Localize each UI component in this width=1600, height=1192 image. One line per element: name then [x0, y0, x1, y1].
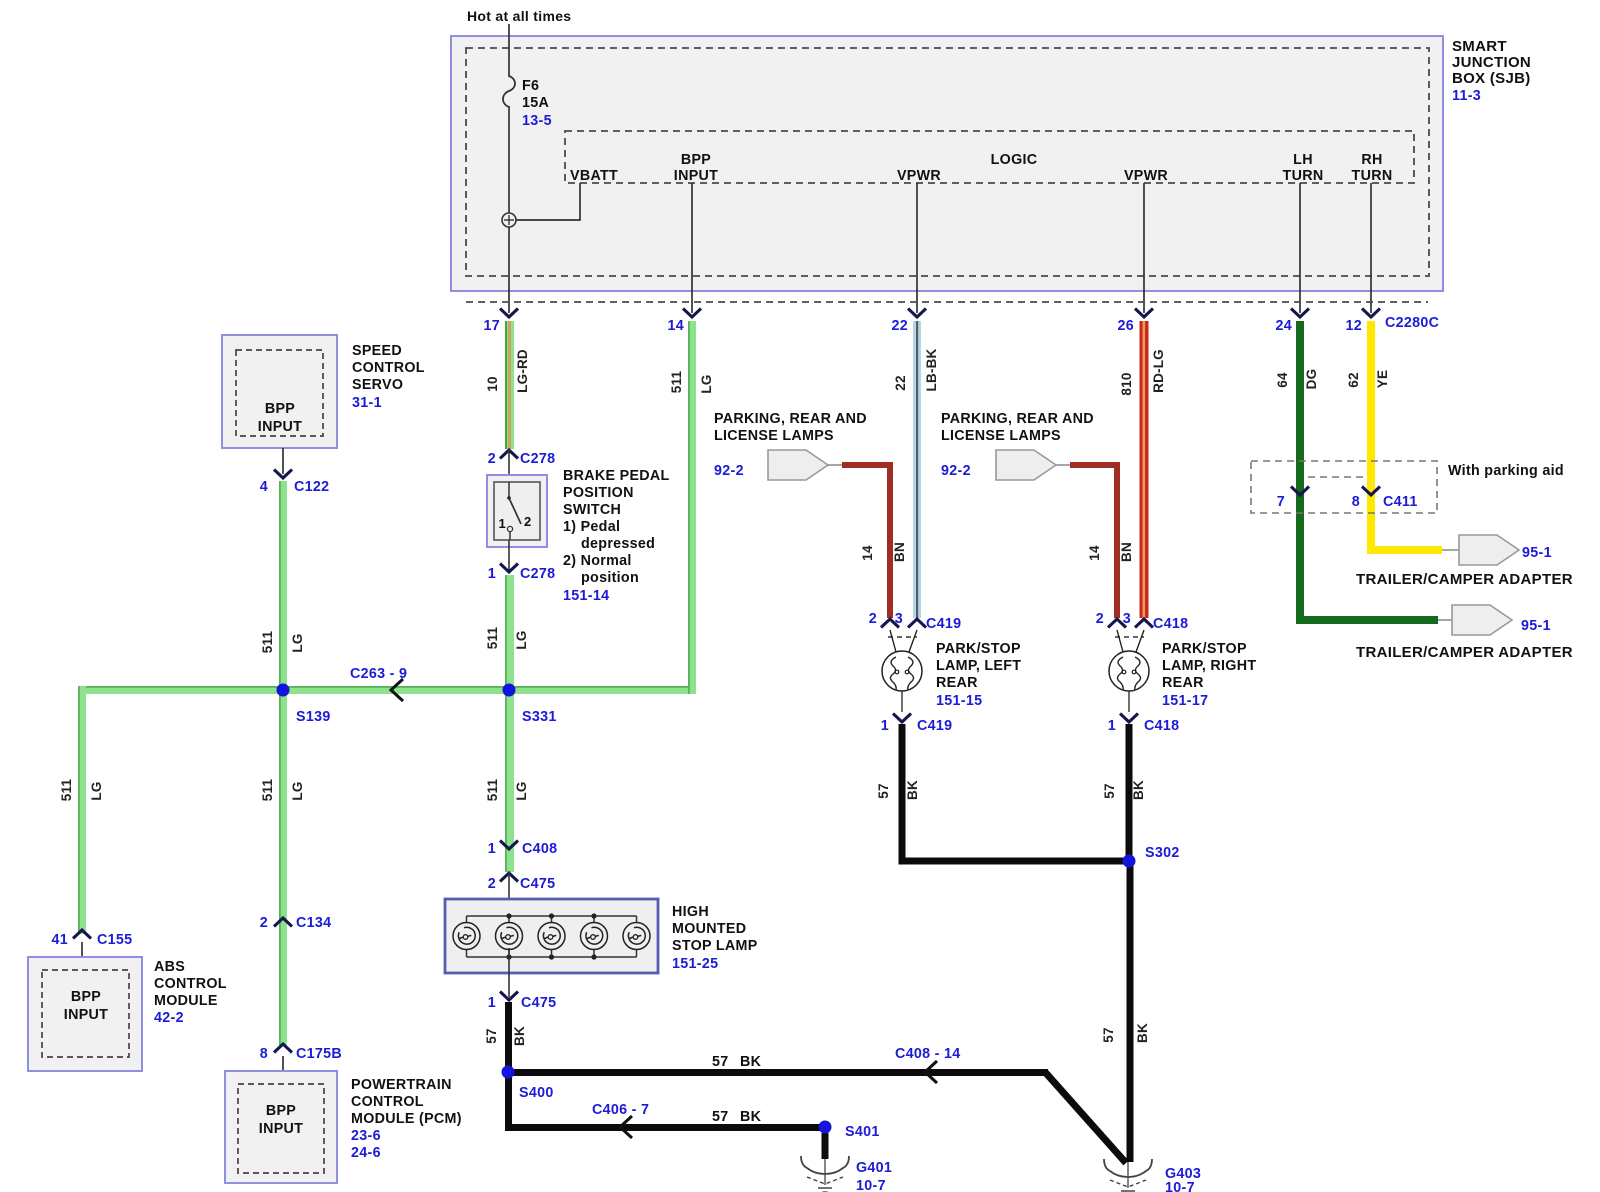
svg-text:511: 511: [260, 779, 275, 802]
svg-text:1: 1: [488, 995, 496, 1011]
svg-text:2: 2: [488, 876, 496, 892]
park/stop lamp right rear bulb: [1109, 630, 1149, 691]
svg-text:MODULE (PCM): MODULE (PCM): [351, 1111, 462, 1127]
svg-text:2: 2: [1096, 611, 1104, 627]
svg-text:REAR: REAR: [936, 675, 978, 691]
svg-text:C263 - 9: C263 - 9: [350, 666, 407, 682]
svg-text:S331: S331: [522, 709, 557, 725]
brake pedal position switch box: [487, 475, 547, 547]
svg-text:RH: RH: [1361, 152, 1382, 168]
svg-text:42-2: 42-2: [154, 1010, 184, 1026]
wire 511 LG horizontal bus at y=690: [78, 686, 696, 694]
wire 511 LG: C122 down through S139 to C134 and C175B: [279, 481, 287, 1045]
svg-text:INPUT: INPUT: [64, 1007, 108, 1023]
svg-text:1) Pedal: 1) Pedal: [563, 519, 620, 535]
svg-text:1: 1: [881, 718, 889, 734]
svg-text:LOGIC: LOGIC: [991, 152, 1038, 168]
svg-text:SWITCH: SWITCH: [563, 502, 621, 518]
svg-text:15A: 15A: [522, 95, 549, 111]
svg-text:14: 14: [860, 545, 875, 561]
svg-text:BPP: BPP: [681, 152, 711, 168]
svg-text:C134: C134: [296, 915, 331, 931]
connector C475 pin 1 arrow (below stop lamp): [508, 948, 510, 997]
stop lamp bulb 4: [581, 923, 608, 950]
with parking aid dashed box: [1251, 461, 1437, 513]
label: F6 15A 13-5: [522, 78, 552, 129]
trailer/camper adapter connector (green): [1452, 605, 1512, 635]
svg-text:LG: LG: [290, 781, 305, 800]
svg-text:LAMP, LEFT: LAMP, LEFT: [936, 658, 1021, 674]
svg-text:C411: C411: [1383, 494, 1418, 510]
trailer/camper adapter connector (yellow): [1459, 535, 1519, 565]
svg-text:DG: DG: [1304, 369, 1319, 390]
svg-text:STOP LAMP: STOP LAMP: [672, 938, 758, 954]
svg-text:2: 2: [524, 514, 532, 529]
harness connector arrow (right parking lamps): [996, 450, 1070, 480]
svg-text:TRAILER/CAMPER ADAPTER: TRAILER/CAMPER ADAPTER: [1356, 644, 1573, 661]
svg-text:VPWR: VPWR: [1124, 168, 1168, 184]
stop lamp bulb 1: [453, 923, 480, 950]
svg-text:24-6: 24-6: [351, 1145, 381, 1161]
svg-text:C2280C: C2280C: [1385, 315, 1439, 331]
wire 511 LG: C278 to stop lamp: [505, 575, 514, 872]
svg-text:2: 2: [260, 915, 268, 931]
svg-text:511: 511: [485, 779, 500, 802]
ground G401: [801, 1156, 849, 1192]
svg-text:PARK/STOP: PARK/STOP: [1162, 641, 1247, 657]
svg-text:C418: C418: [1144, 718, 1179, 734]
wire: VBATT to splice: [516, 183, 580, 220]
svg-text:7: 7: [1277, 494, 1285, 510]
connector C411 pin 8 arrow: [1362, 487, 1380, 496]
stop lamp bulb 3: [538, 923, 565, 950]
svg-text:57: 57: [712, 1109, 729, 1125]
connector C408 pin 1 arrow: [500, 841, 518, 850]
svg-text:SMART: SMART: [1452, 38, 1507, 55]
svg-text:SERVO: SERVO: [352, 377, 403, 393]
label: PARK/STOP LAMP, RIGHT REAR 151-17: [1162, 641, 1256, 709]
svg-text:1: 1: [488, 566, 496, 582]
splice S331 dot: [503, 684, 516, 697]
svg-text:VPWR: VPWR: [897, 168, 941, 184]
svg-text:INPUT: INPUT: [674, 168, 718, 184]
connector C419 pin 1 arrow: [901, 691, 903, 712]
svg-text:511: 511: [669, 371, 684, 394]
svg-text:S139: S139: [296, 709, 331, 725]
svg-text:BRAKE PEDAL: BRAKE PEDAL: [563, 468, 670, 484]
harness connector arrow (left parking lamps): [768, 450, 842, 480]
label: POWERTRAIN CONTROL MODULE (PCM) 23-6 24-6: [351, 1077, 462, 1161]
svg-text:G401: G401: [856, 1160, 892, 1176]
svg-text:1: 1: [1108, 718, 1116, 734]
ground G403: [1104, 1159, 1152, 1191]
wire 511 LG left drop to C155: [78, 686, 86, 934]
label: PARKING, REAR AND LICENSE LAMPS 92-2 (left): [714, 411, 867, 479]
connector C175B pin 8 arrow: [274, 1044, 292, 1053]
svg-text:C406 - 7: C406 - 7: [592, 1102, 649, 1118]
wire 62 YE to trailer adapter: [1367, 546, 1442, 554]
svg-text:LG-RD: LG-RD: [515, 349, 530, 393]
svg-text:LICENSE LAMPS: LICENSE LAMPS: [714, 428, 834, 444]
svg-text:8: 8: [260, 1046, 268, 1062]
park/stop lamp left rear bulb: [882, 630, 922, 691]
svg-text:INPUT: INPUT: [258, 419, 302, 435]
svg-text:PARK/STOP: PARK/STOP: [936, 641, 1021, 657]
svg-text:24: 24: [1275, 318, 1292, 334]
svg-text:VBATT: VBATT: [570, 168, 618, 184]
pin 24 arrow: [1291, 309, 1309, 318]
svg-text:41: 41: [51, 932, 68, 948]
svg-text:position: position: [581, 570, 639, 586]
svg-text:CONTROL: CONTROL: [351, 1094, 424, 1110]
svg-text:1: 1: [498, 516, 506, 531]
label: SMART JUNCTION BOX (SJB) 11-3: [1452, 38, 1531, 104]
svg-text:TRAILER/CAMPER ADAPTER: TRAILER/CAMPER ADAPTER: [1356, 571, 1573, 588]
svg-text:BK: BK: [740, 1054, 762, 1070]
svg-text:62: 62: [1346, 372, 1361, 387]
splice S139 dot: [277, 684, 290, 697]
svg-text:C419: C419: [917, 718, 952, 734]
svg-text:POSITION: POSITION: [563, 485, 634, 501]
stop lamp bulb 2: [496, 923, 523, 950]
svg-text:C278: C278: [520, 451, 555, 467]
svg-text:511: 511: [59, 779, 74, 802]
svg-text:REAR: REAR: [1162, 675, 1204, 691]
svg-text:C408 - 14: C408 - 14: [895, 1046, 961, 1062]
svg-text:95-1: 95-1: [1521, 618, 1551, 634]
wire 57 BK: S400 south then east to S401: [505, 1072, 512, 1131]
svg-text:LH: LH: [1293, 152, 1313, 168]
svg-text:511: 511: [260, 631, 275, 654]
wire 64 DG from pin 24: [1296, 321, 1304, 624]
svg-text:95-1: 95-1: [1522, 545, 1552, 561]
label: PARKING, REAR AND LICENSE LAMPS 92-2 (right): [941, 411, 1094, 479]
svg-text:S401: S401: [845, 1124, 880, 1140]
pin 17 arrow: [500, 309, 518, 318]
svg-text:C155: C155: [97, 932, 132, 948]
connector C134 pin 2 arrow: [274, 918, 292, 927]
svg-text:PARKING, REAR AND: PARKING, REAR AND: [714, 411, 867, 427]
svg-text:14: 14: [667, 318, 684, 334]
svg-text:LAMP, RIGHT: LAMP, RIGHT: [1162, 658, 1256, 674]
svg-text:C122: C122: [294, 479, 329, 495]
pin 12 arrow C2280C: [1362, 309, 1380, 318]
svg-text:92-2: 92-2: [714, 463, 744, 479]
svg-text:57: 57: [484, 1028, 499, 1043]
svg-text:64: 64: [1275, 372, 1290, 388]
wire 14 BN (left): [842, 465, 890, 618]
svg-text:C418: C418: [1153, 616, 1188, 632]
connector arrow C406-7 on wire: [620, 1116, 632, 1138]
svg-text:YE: YE: [1375, 370, 1390, 388]
svg-text:11-3: 11-3: [1452, 88, 1481, 104]
svg-text:JUNCTION: JUNCTION: [1452, 54, 1531, 71]
wire 14 BN (right): [1070, 465, 1117, 618]
svg-text:BK: BK: [740, 1109, 762, 1125]
svg-text:INPUT: INPUT: [259, 1121, 303, 1137]
svg-text:2: 2: [488, 451, 496, 467]
svg-text:LG: LG: [89, 781, 104, 800]
svg-text:31-1: 31-1: [352, 395, 382, 411]
splice S401 dot: [819, 1121, 832, 1134]
connector arrow C263-9 on bus: [391, 679, 403, 701]
splice S400 dot: [502, 1066, 515, 1079]
svg-text:8: 8: [1352, 494, 1360, 510]
svg-text:14: 14: [1087, 545, 1102, 561]
connector C418 pins 2,3 arrows: [1108, 619, 1126, 628]
svg-text:LG: LG: [699, 374, 714, 393]
pin stub wires from SJB connector strip: [692, 183, 1371, 313]
svg-text:10: 10: [485, 376, 500, 391]
wire 57 BK: left lamp to S302: [899, 724, 906, 864]
svg-text:CONTROL: CONTROL: [352, 360, 425, 376]
svg-text:C408: C408: [522, 841, 557, 857]
svg-text:57: 57: [1101, 1027, 1116, 1042]
svg-text:BN: BN: [1119, 542, 1134, 562]
svg-text:2) Normal: 2) Normal: [563, 553, 632, 569]
svg-text:MOUNTED: MOUNTED: [672, 921, 746, 937]
svg-text:BPP: BPP: [266, 1103, 296, 1119]
svg-text:LB-BK: LB-BK: [924, 348, 939, 391]
wire 810 RD-LG from pin 26: [1140, 321, 1149, 618]
svg-text:SPEED: SPEED: [352, 343, 402, 359]
pin 26 arrow: [1135, 309, 1153, 318]
smart junction box (SJB) outline: [451, 36, 1443, 291]
svg-text:Hot at all times: Hot at all times: [467, 8, 571, 24]
svg-text:13-5: 13-5: [522, 113, 552, 129]
label: HIGH MOUNTED STOP LAMP 151-25: [672, 904, 758, 972]
svg-text:TURN: TURN: [1352, 168, 1393, 184]
wire 62 YE from pin 12: [1367, 321, 1375, 554]
wire 57 BK: stop lamp to S400: [505, 1002, 512, 1076]
svg-text:LG: LG: [514, 630, 529, 649]
svg-text:BOX (SJB): BOX (SJB): [1452, 70, 1531, 87]
ABS control module box: [28, 957, 142, 1071]
wire 10 LG-RD from pin 17: [505, 321, 514, 449]
fuse F6 15A: [503, 76, 515, 107]
svg-text:511: 511: [485, 627, 500, 650]
svg-text:4: 4: [260, 479, 268, 495]
wire 57 BK: right lamp to S302: [1126, 724, 1133, 864]
svg-text:26: 26: [1117, 318, 1134, 334]
svg-text:151-25: 151-25: [672, 956, 718, 972]
wire: battery feed into SJB: [508, 24, 510, 313]
connector C122 pin 4 arrow: [274, 470, 292, 479]
svg-text:12: 12: [1345, 318, 1362, 334]
svg-text:HIGH: HIGH: [672, 904, 709, 920]
svg-text:17: 17: [483, 318, 500, 334]
dashed harness line below SJB: [466, 301, 1428, 303]
connector arrow C408-14 on wire: [925, 1061, 937, 1083]
svg-text:151-15: 151-15: [936, 693, 982, 709]
wire 511 LG from pin 14 down to S331 bus: [688, 321, 696, 694]
wire 22 LB-BK from pin 22: [913, 321, 921, 618]
svg-text:10-7: 10-7: [1165, 1180, 1195, 1192]
svg-text:BK: BK: [1135, 1023, 1150, 1043]
svg-text:LICENSE LAMPS: LICENSE LAMPS: [941, 428, 1061, 444]
svg-text:PARKING, REAR AND: PARKING, REAR AND: [941, 411, 1094, 427]
label: BRAKE PEDAL POSITION SWITCH notes 151-14: [563, 468, 670, 604]
svg-text:23-6: 23-6: [351, 1128, 381, 1144]
wire: servo pigtail: [282, 448, 284, 474]
svg-text:92-2: 92-2: [941, 463, 971, 479]
wire 64 DG to trailer adapter: [1296, 616, 1438, 624]
svg-text:BK: BK: [512, 1026, 527, 1046]
svg-text:RD-LG: RD-LG: [1151, 349, 1166, 393]
connector C155 pin 41 arrow: [73, 930, 91, 939]
svg-text:57: 57: [876, 783, 891, 798]
svg-text:810: 810: [1119, 372, 1134, 395]
speed control servo box: [222, 335, 337, 448]
svg-text:BPP: BPP: [71, 989, 101, 1005]
svg-text:F6: F6: [522, 78, 539, 94]
svg-text:BN: BN: [892, 542, 907, 562]
svg-text:BK: BK: [905, 780, 920, 800]
svg-text:C278: C278: [520, 566, 555, 582]
svg-text:151-14: 151-14: [563, 588, 609, 604]
label: PARK/STOP LAMP, LEFT REAR 151-15: [936, 641, 1021, 709]
wire 57 BK: S400 east to G403 diagonal: [505, 1069, 1048, 1076]
svg-text:3: 3: [1123, 611, 1131, 627]
svg-text:TURN: TURN: [1283, 168, 1324, 184]
svg-text:C175B: C175B: [296, 1046, 342, 1062]
svg-text:LG: LG: [514, 781, 529, 800]
svg-text:LG: LG: [290, 633, 305, 652]
svg-text:22: 22: [893, 375, 908, 390]
svg-text:With parking aid: With parking aid: [1448, 463, 1564, 479]
wire: S401 to ground: [822, 1133, 829, 1159]
connector C411 pin 7 arrow: [1291, 487, 1309, 496]
svg-text:ABS: ABS: [154, 959, 185, 975]
label: SPEED CONTROL SERVO 31-1: [352, 343, 425, 411]
splice S302 dot: [1123, 855, 1136, 868]
svg-text:depressed: depressed: [581, 536, 655, 552]
svg-text:57: 57: [1102, 783, 1117, 798]
svg-text:POWERTRAIN: POWERTRAIN: [351, 1077, 452, 1093]
svg-text:1: 1: [488, 841, 496, 857]
svg-text:BPP: BPP: [265, 401, 295, 417]
pin 14 arrow: [683, 309, 701, 318]
svg-text:BK: BK: [1131, 780, 1146, 800]
connector C419 pins 2,3 arrows: [881, 619, 899, 628]
svg-text:S302: S302: [1145, 845, 1180, 861]
svg-text:MODULE: MODULE: [154, 993, 218, 1009]
label: ABS CONTROL MODULE 42-2: [154, 959, 227, 1026]
powertrain control module (PCM) box: [225, 1071, 337, 1183]
svg-text:S400: S400: [519, 1085, 554, 1101]
connector C475 pin 2 arrow: [500, 873, 518, 882]
high mounted stop lamp box: [445, 899, 658, 973]
connector C418 pin 1 arrow: [1128, 691, 1130, 712]
wire 57 BK: S302 to ground G403: [1127, 861, 1134, 1162]
svg-text:C475: C475: [520, 876, 555, 892]
svg-text:22: 22: [891, 318, 908, 334]
pin 22 arrow: [908, 309, 926, 318]
svg-text:10-7: 10-7: [856, 1178, 886, 1192]
svg-text:57: 57: [712, 1054, 729, 1070]
svg-text:151-17: 151-17: [1162, 693, 1208, 709]
svg-text:C475: C475: [521, 995, 556, 1011]
stop lamp bulb 5: [623, 923, 650, 950]
svg-text:3: 3: [895, 611, 903, 627]
connector C278 pin 2 arrow: [500, 450, 518, 459]
connector C278 pin 1 arrow: [508, 540, 510, 573]
svg-text:CONTROL: CONTROL: [154, 976, 227, 992]
splice terminal inside SJB: [502, 213, 516, 227]
svg-text:2: 2: [869, 611, 877, 627]
svg-text:C419: C419: [926, 616, 961, 632]
